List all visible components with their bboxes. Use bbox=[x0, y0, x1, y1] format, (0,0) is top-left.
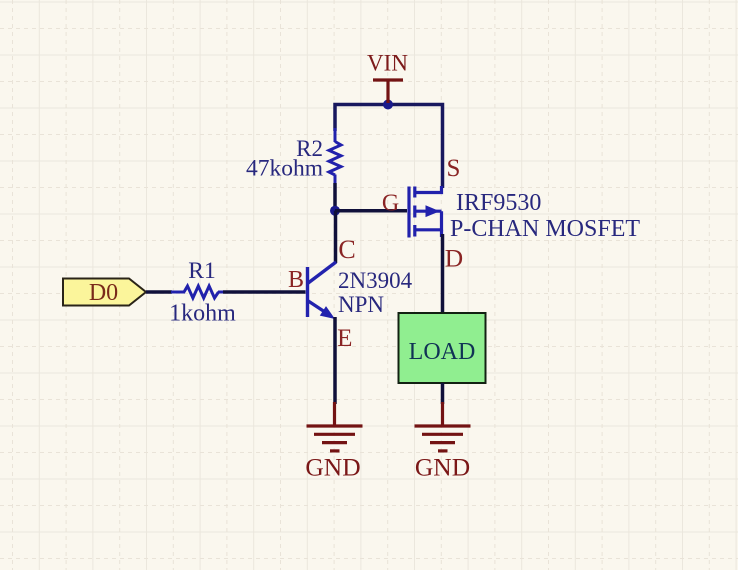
svg-text:G: G bbox=[382, 191, 399, 217]
wire LOAD to GND bbox=[441, 383, 445, 404]
wire drain to LOAD bbox=[441, 234, 445, 314]
svg-text:D: D bbox=[445, 244, 463, 273]
wire gate net horizontal bbox=[335, 209, 407, 213]
svg-text:E: E bbox=[337, 325, 352, 352]
wire emitter to GND bbox=[333, 317, 337, 404]
wire collector vertical bbox=[334, 211, 338, 263]
svg-text:NPN: NPN bbox=[338, 292, 384, 317]
svg-text:GND: GND bbox=[305, 452, 360, 481]
wire D0 to R1 bbox=[146, 290, 172, 294]
svg-text:R1: R1 bbox=[188, 258, 215, 284]
wire R1 to base bbox=[223, 290, 306, 294]
svg-text:1kohm: 1kohm bbox=[169, 301, 236, 327]
transistor Q1 2N3904 bbox=[308, 262, 337, 317]
junction node VIN bbox=[383, 100, 393, 110]
transistor U1 body arrow bbox=[426, 205, 440, 217]
ground GND right bbox=[415, 402, 471, 451]
power symbol VIN bbox=[373, 80, 403, 103]
junction node gate bbox=[330, 206, 340, 216]
resistor R1 bbox=[171, 286, 224, 298]
resistor R2 bbox=[329, 128, 341, 186]
svg-text:IRF9530: IRF9530 bbox=[456, 190, 541, 216]
component LOAD box bbox=[399, 313, 486, 383]
svg-text:47kohm: 47kohm bbox=[246, 155, 323, 181]
svg-text:S: S bbox=[447, 155, 461, 182]
svg-text:P-CHAN MOSFET: P-CHAN MOSFET bbox=[450, 216, 640, 242]
wire R2 bottom to junction bbox=[333, 183, 337, 211]
svg-text:VIN: VIN bbox=[367, 51, 408, 76]
svg-text:GND: GND bbox=[415, 452, 470, 481]
port D0 bbox=[63, 279, 146, 307]
svg-text:LOAD: LOAD bbox=[409, 339, 476, 365]
svg-text:D0: D0 bbox=[89, 280, 118, 306]
ground GND left bbox=[307, 402, 363, 451]
transistor U1 IRF9530 P-MOSFET bbox=[409, 186, 442, 238]
svg-text:C: C bbox=[338, 235, 355, 264]
wire top rail VIN net bbox=[335, 105, 443, 189]
svg-text:2N3904: 2N3904 bbox=[338, 268, 413, 293]
transistor Q1 emitter arrowhead bbox=[320, 306, 335, 319]
svg-text:B: B bbox=[288, 267, 304, 293]
